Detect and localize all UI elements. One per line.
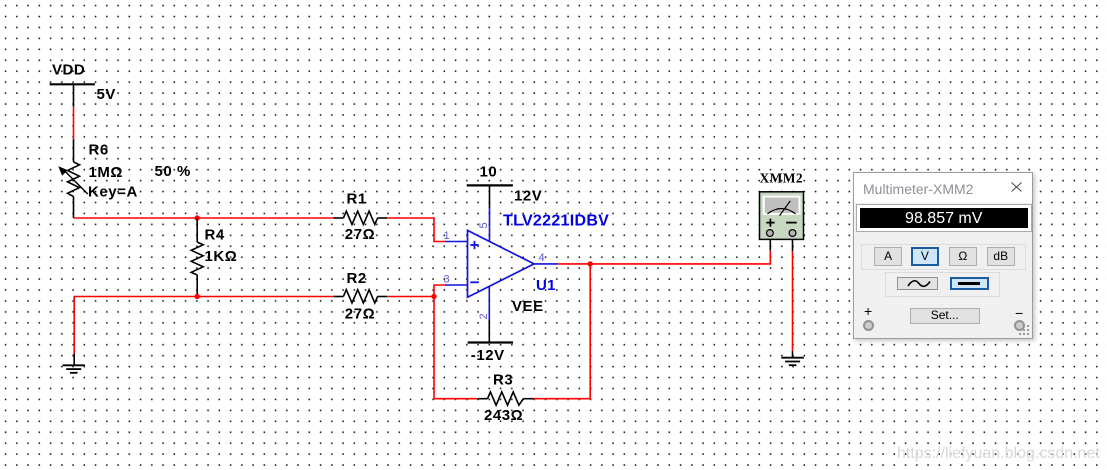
- op-amp U1: [445, 208, 558, 319]
- resistor R2: [334, 290, 388, 303]
- resistor R4: [191, 218, 203, 297]
- svg-text:4: 4: [539, 252, 545, 264]
- title bar: [854, 173, 1032, 204]
- multimeter XMM2 icon: [760, 192, 804, 240]
- Set button: [910, 308, 980, 324]
- potentiometer R6: [58, 140, 88, 219]
- wire R1 to op-amp pin1: [387, 218, 445, 242]
- svg-text:27Ω: 27Ω: [345, 226, 375, 243]
- button dB: [987, 247, 1015, 266]
- readout display: [856, 204, 1033, 233]
- junction: [588, 261, 593, 266]
- junction: [431, 294, 436, 299]
- wire meter - terminal: [792, 239, 794, 251]
- svg-text:10: 10: [480, 163, 498, 180]
- svg-text:5: 5: [478, 222, 490, 228]
- ground (left): [63, 354, 85, 373]
- svg-text:U1: U1: [536, 277, 556, 294]
- wire upper rail: [74, 217, 334, 219]
- junction: [195, 215, 200, 220]
- svg-text:R2: R2: [347, 270, 367, 287]
- svg-text:1: 1: [444, 230, 450, 242]
- svg-text:27Ω: 27Ω: [345, 306, 375, 323]
- svg-text:3: 3: [444, 274, 450, 286]
- power bar VCC 12V: [467, 185, 513, 208]
- junction: [195, 294, 200, 299]
- power bar VEE -12V: [468, 319, 513, 342]
- wire lower rail: [74, 297, 333, 354]
- plus terminal label: [864, 303, 872, 319]
- svg-text:TLV2221IDBV: TLV2221IDBV: [503, 213, 609, 230]
- multimeter dialog window: [853, 172, 1033, 339]
- svg-text:2: 2: [478, 313, 490, 319]
- button V (selected): [911, 247, 939, 266]
- power symbol VDD: [50, 84, 95, 106]
- close button: [1011, 182, 1022, 192]
- svg-text:-12V: -12V: [471, 347, 505, 364]
- minus terminal label: [1015, 305, 1023, 321]
- resize grip: [1018, 324, 1031, 337]
- wire output to R3 right: [534, 264, 591, 399]
- wire R2 to pin3 and R3: [387, 296, 434, 298]
- svg-text:1MΩ: 1MΩ: [89, 164, 124, 181]
- svg-text:R1: R1: [347, 190, 367, 207]
- svg-text:R4: R4: [205, 226, 225, 243]
- svg-text:5V: 5V: [97, 86, 116, 103]
- svg-text:https://liefyuan.blog.csdn.net: https://liefyuan.blog.csdn.net: [897, 445, 1100, 462]
- wire vertical pin3/R3: [434, 285, 478, 399]
- button sine: [897, 277, 939, 290]
- svg-text:Key=A: Key=A: [88, 184, 138, 201]
- plus terminal jack: [863, 320, 874, 331]
- group box waveform: [885, 272, 1000, 297]
- svg-text:12V: 12V: [514, 187, 542, 204]
- svg-text:VEE: VEE: [512, 298, 544, 315]
- wire VDD to R6: [73, 107, 75, 140]
- button DC (selected): [950, 277, 989, 290]
- svg-text:1KΩ: 1KΩ: [205, 248, 238, 265]
- button ohm: [949, 247, 977, 266]
- svg-text:R3: R3: [493, 371, 513, 388]
- group box modes: [861, 244, 1026, 270]
- svg-text:50 %: 50 %: [155, 163, 191, 180]
- minus terminal jack: [1014, 320, 1025, 331]
- resistor R3: [478, 392, 534, 405]
- ground (right): [781, 358, 803, 366]
- wire meter + terminal: [769, 239, 771, 250]
- wire op-amp output to meter: [558, 250, 771, 264]
- svg-text:VDD: VDD: [52, 62, 85, 79]
- button A: [874, 247, 902, 266]
- svg-text:243Ω: 243Ω: [484, 407, 523, 424]
- svg-text:R6: R6: [89, 142, 109, 159]
- svg-text:XMM2: XMM2: [760, 171, 804, 186]
- resistor R1: [334, 211, 388, 224]
